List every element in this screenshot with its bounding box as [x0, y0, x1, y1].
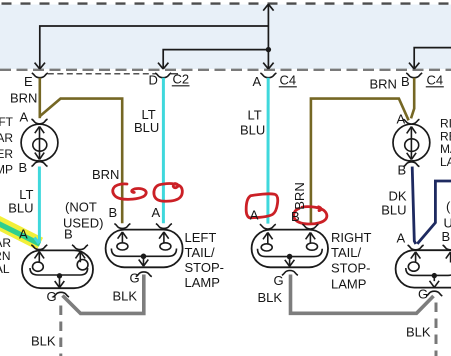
svg-text:A: A: [152, 205, 161, 220]
lamp4 ground arrow: [430, 276, 440, 288]
svg-text:BLU: BLU: [134, 120, 159, 135]
svg-text:BLK: BLK: [406, 325, 431, 340]
svg-text:DK: DK: [388, 189, 406, 204]
left marker lamp filament element: [39, 128, 41, 159]
svg-text:BLU: BLU: [381, 203, 406, 218]
right tail/stop lamp (lamp3) body: [252, 230, 328, 268]
arrow up at top of vertical bus: [263, 4, 273, 10]
lamp3 internal bus: [258, 249, 323, 257]
svg-text:LAMP: LAMP: [331, 277, 366, 292]
wire DK BLU from right marker pin B down to lamp4 pin A: [412, 167, 416, 244]
wire LT BLU from pin D down to left tail lamp pin A: [162, 78, 165, 223]
wire BRN from pin B down to right marker lamp pin A: [411, 78, 414, 119]
svg-text:B: B: [442, 229, 451, 244]
wire bus line B (to pin D): [163, 50, 268, 69]
band bottom dashed border: [0, 69, 451, 71]
svg-text:B: B: [398, 163, 407, 178]
svg-text:BRN: BRN: [292, 182, 307, 209]
connector C2 body dashed line: [48, 73, 156, 75]
band top dashed border: [0, 2, 451, 4]
svg-text:B: B: [64, 227, 73, 242]
highlighter mark (green core): [0, 223, 40, 244]
svg-text:B: B: [291, 209, 300, 224]
svg-text:B: B: [109, 205, 118, 220]
lamp1 pin A cup: [31, 245, 47, 250]
junction dot on vertical bus: [266, 47, 271, 52]
lamp4 pin B cup (not used): [443, 245, 451, 250]
left rear turn signal lamp (lamp1) body: [22, 250, 93, 288]
lamp4 internal bus: [406, 268, 451, 275]
lamp4 filament loops: [408, 262, 419, 271]
svg-text:STOP-: STOP-: [185, 260, 225, 275]
svg-text:TAIL/: TAIL/: [331, 245, 361, 260]
svg-text:A: A: [397, 112, 406, 127]
connector C4 pin B cup: [406, 73, 422, 78]
svg-text:(NOT: (NOT: [446, 199, 451, 214]
vertical bus with arrows at both ends: [267, 4, 269, 69]
lamp2 pin A cup: [156, 224, 172, 229]
wire DK BLU from right edge down to lamp4 pin A: [417, 181, 451, 244]
lamp2 junction dot: [141, 253, 147, 259]
lamp1 internal bus: [30, 268, 88, 275]
lamp1 ground pin G cup: [53, 292, 69, 297]
wire BRN branch to left tail lamp pin B: [40, 99, 122, 224]
wire BLK from lamp1 G to lamp2 G: [63, 275, 144, 314]
svg-text:C4: C4: [280, 73, 297, 88]
svg-text:TURN: TURN: [0, 249, 11, 263]
lamp4 filament B arrow: [446, 252, 451, 263]
lamp1 filament B arrow: [76, 252, 86, 263]
lamp2 filament A arrow: [159, 232, 169, 243]
left rear marker lamp body: [21, 124, 58, 161]
right marker lamp pin B cup: [403, 162, 419, 167]
svg-text:A: A: [253, 74, 262, 89]
right rear turn signal lamp (lamp4) body: [396, 250, 451, 287]
right rear marker lamp body: [393, 124, 430, 161]
right marker lamp filament element: [410, 128, 412, 159]
svg-text:REAR: REAR: [0, 131, 13, 145]
wire BLK dashed (ground, lamp4): [435, 303, 438, 356]
lamp1 junction dot: [57, 273, 62, 278]
arrow down into pin D: [158, 63, 168, 69]
svg-text:LAMP: LAMP: [0, 163, 13, 177]
lamp1 ground arrow: [55, 276, 65, 288]
svg-text:A: A: [19, 227, 28, 242]
svg-text:C2: C2: [173, 72, 190, 87]
off-page connector band (light blue): [0, 5, 451, 70]
lamp2 pin B cup: [114, 224, 130, 229]
wire BRN from pin E down to left marker lamp pin A: [38, 78, 41, 118]
lamp4 junction dot: [432, 273, 437, 278]
svg-text:B: B: [401, 74, 410, 89]
wire BLK dashed (ground, lamp1): [59, 306, 62, 356]
lamp3 pin A cup: [260, 224, 276, 229]
red annotation blob 4 (over BRN wire right): [294, 207, 327, 224]
svg-text:A: A: [397, 231, 406, 246]
left tail/stop lamp (lamp2) body: [106, 230, 183, 268]
svg-text:D: D: [149, 73, 158, 88]
svg-text:USED): USED): [444, 216, 451, 231]
wire BRN from right tail lamp pin B up and over to right marker lamp pin A: [311, 99, 409, 224]
connector C2 pin D cup: [155, 73, 171, 78]
svg-text:C4: C4: [427, 73, 444, 88]
lamp2 filament loops: [117, 243, 128, 250]
svg-text:G: G: [418, 287, 428, 302]
svg-text:G: G: [130, 271, 140, 286]
lamp4 pin A cup: [408, 245, 424, 250]
arrow down into pin A: [263, 63, 273, 69]
highlighter mark (yellow) over LT BLU wire at left edge: [0, 222, 40, 244]
wire LT BLU from pin A down to right tail lamp pin A: [266, 78, 269, 224]
lamp4 ground pin G cup: [426, 291, 442, 296]
lamp3 filament B arrow: [306, 233, 316, 244]
connector C2 pin E cup: [32, 73, 48, 78]
svg-text:G: G: [47, 289, 57, 304]
left marker lamp pin A cup: [32, 119, 48, 124]
lamp3 filament loops: [261, 244, 272, 251]
svg-text:MARKER: MARKER: [0, 147, 13, 161]
lamp2 internal bus: [111, 249, 176, 257]
svg-text:LAMP: LAMP: [440, 155, 451, 169]
svg-text:A: A: [20, 110, 29, 125]
wire BLK from lamp3 G to lamp4 G: [291, 275, 434, 314]
svg-text:BRN: BRN: [370, 77, 397, 92]
svg-text:BRN: BRN: [10, 91, 37, 106]
svg-text:BLK: BLK: [31, 334, 56, 349]
svg-text:E: E: [24, 74, 33, 89]
svg-text:REAR: REAR: [0, 236, 11, 250]
svg-text:LEFT: LEFT: [0, 115, 14, 129]
red annotation blob 3 (over LT BLU wire right): [246, 194, 278, 218]
wire bus line C (to pin B right): [414, 48, 451, 69]
svg-text:SIGNAL: SIGNAL: [0, 262, 10, 276]
svg-text:BLU: BLU: [240, 123, 265, 138]
svg-text:B: B: [19, 160, 28, 175]
svg-text:G: G: [274, 273, 284, 288]
svg-text:BLU: BLU: [8, 201, 33, 216]
svg-text:LEFT: LEFT: [185, 230, 217, 245]
svg-text:TAIL/: TAIL/: [185, 245, 215, 260]
red annotation blob 1 (over BRN wire): [113, 184, 146, 199]
svg-text:BLK: BLK: [258, 290, 283, 305]
lamp2 filament B arrow: [118, 232, 128, 243]
svg-text:BRN: BRN: [92, 167, 119, 182]
lamp3 ground pin G cup: [282, 271, 298, 276]
svg-text:LT: LT: [248, 108, 262, 123]
svg-text:STOP-: STOP-: [331, 261, 371, 276]
lamp1 filament loops: [33, 262, 44, 271]
lamp3 junction dot: [287, 254, 293, 260]
svg-text:(NOT: (NOT: [65, 200, 97, 215]
lamp3 pin B cup: [302, 224, 318, 229]
wire bus line A (to pin E): [40, 26, 269, 69]
lamp2 ground arrow: [139, 256, 149, 266]
svg-text:LAMP: LAMP: [185, 275, 220, 290]
svg-text:BLK: BLK: [113, 289, 138, 304]
connector C4 pin A cup: [260, 73, 276, 78]
lamp4 filament A arrow: [411, 252, 421, 263]
right marker lamp pin A cup: [403, 119, 419, 124]
wire LT BLU from left marker pin B down to lamp1 pin A: [38, 167, 41, 243]
svg-text:RIGHT: RIGHT: [331, 230, 372, 245]
red annotation blob 2 (over LT BLU wire): [154, 183, 182, 201]
lamp2 ground pin G cup: [136, 272, 152, 277]
lamp1 filament A arrow: [35, 252, 45, 263]
lamp3 filament A arrow: [263, 233, 273, 244]
lamp3 ground arrow: [285, 257, 295, 267]
lamp1 pin B cup (not used): [72, 245, 88, 250]
svg-text:A: A: [250, 208, 259, 223]
wire LT BLU diagonal tip into lamp pin A: [35, 238, 40, 244]
left marker lamp pin B cup: [32, 162, 48, 167]
arrow down into pin E: [35, 63, 45, 69]
arrow down into pin B right: [409, 63, 419, 69]
